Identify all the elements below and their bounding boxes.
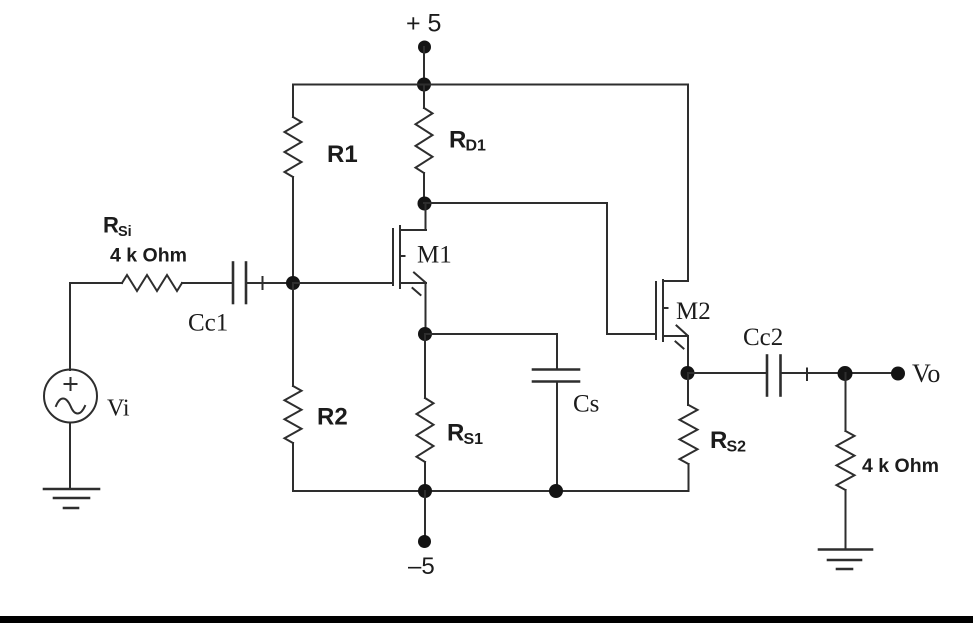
svg-text:Cc1: Cc1 (188, 310, 228, 337)
svg-text:Cc2: Cc2 (743, 324, 783, 351)
svg-text:R2: R2 (317, 404, 348, 431)
svg-text:R: R (710, 427, 727, 454)
node bottom rail / RS1 (418, 484, 432, 498)
wire Cc2 to output (781, 372, 898, 374)
resistor Rsi (122, 275, 182, 291)
wire Vi to Rsi (70, 282, 122, 284)
wire load resistor to ground (845, 490, 847, 549)
resistor R2 (285, 386, 302, 443)
ground (input) (44, 489, 99, 508)
wire Cc1 to gate node (246, 282, 293, 284)
wire drain node to M2 gate run (horizontal) (424, 202, 607, 204)
wire Vi to ground (69, 423, 71, 490)
wire M1 source drop (425, 283, 427, 334)
wire source node to Cc2 (688, 372, 766, 374)
svg-text:Vo: Vo (912, 359, 940, 388)
wire R1 bottom lead to gate node (292, 177, 294, 283)
svg-text:D1: D1 (466, 138, 487, 155)
label RSi (103, 213, 132, 241)
svg-text:S2: S2 (727, 439, 747, 456)
node M2 source (681, 366, 695, 380)
wire RD1 top lead (423, 85, 425, 109)
wire R2 bottom lead (292, 443, 294, 491)
svg-text:4 k Ohm: 4 k Ohm (110, 245, 187, 267)
resistor R1 (285, 117, 302, 177)
ground (output) (819, 550, 872, 570)
wire Cs bottom lead (556, 382, 558, 492)
wire +5 stub (423, 47, 425, 85)
wire M2 drain riser to top rail (687, 85, 689, 282)
wire top rail (293, 84, 688, 86)
node M1 drain (418, 197, 432, 211)
svg-text:Si: Si (118, 224, 132, 240)
node M1 gate (286, 276, 300, 290)
svg-text:4 k Ohm: 4 k Ohm (862, 455, 939, 477)
wire -5 stub (424, 491, 426, 536)
wire source node to Cs (425, 333, 557, 335)
svg-text:R: R (103, 213, 119, 238)
svg-text:M1: M1 (417, 242, 452, 269)
terminal dot Vo (891, 367, 905, 381)
wire Vi top lead (69, 283, 71, 370)
svg-text:R1: R1 (327, 141, 358, 168)
svg-text:+ 5: + 5 (406, 10, 441, 38)
label RS2 (710, 427, 746, 456)
svg-text:–5: –5 (408, 553, 435, 580)
node bottom rail / Cs (549, 484, 563, 498)
wire M2 source drop (687, 336, 689, 373)
capacitor Cs (533, 370, 579, 382)
node M1 source (418, 327, 432, 341)
resistor RS2 (680, 405, 698, 464)
resistor RD1 (416, 108, 433, 173)
wire M2 gate run (vertical) (606, 203, 608, 334)
label RS1 (447, 420, 483, 449)
transistor M1 (393, 226, 426, 295)
transistor M2 (656, 280, 688, 349)
wire gate node to R2 (292, 283, 294, 386)
svg-text:R: R (447, 420, 464, 447)
wire RS2 bottom lead (688, 464, 690, 491)
node output junction (838, 366, 853, 381)
wire M1 drain riser (425, 203, 427, 230)
resistor RS1 (417, 398, 434, 462)
wire RS2 top lead (687, 373, 689, 405)
terminal dot -5 (418, 535, 431, 548)
svg-text:Vi: Vi (107, 396, 130, 422)
svg-text:Cs: Cs (573, 391, 599, 418)
wire Cs top lead (556, 334, 558, 369)
svg-text:S1: S1 (464, 431, 484, 448)
wire R1 top lead (292, 85, 294, 118)
resistor 4 k Ohm load (837, 431, 855, 490)
capacitor Cc2 (767, 356, 781, 396)
source Vi (44, 370, 97, 423)
wire Rsi to Cc1 (182, 282, 232, 284)
svg-text:R: R (449, 127, 466, 154)
node top-rail junction (417, 78, 431, 92)
capacitor Cc1 (233, 263, 246, 304)
label RD1 (449, 127, 486, 155)
wire RD1 bottom lead (423, 173, 425, 203)
polarity + tick after Cc2 (806, 369, 808, 381)
wire RS1 bottom lead (424, 462, 426, 491)
wire M2 gate lead (607, 333, 656, 335)
wire bottom rail (293, 490, 689, 492)
wire gate node to M1 gate (293, 282, 393, 284)
polarity + tick after Cc1 (262, 277, 264, 289)
terminal dot +5 (418, 41, 431, 54)
bottom black bar (0, 616, 973, 623)
svg-text:M2: M2 (676, 298, 711, 325)
wire RS1 top lead (424, 334, 426, 398)
wire load resistor top lead (845, 373, 847, 431)
